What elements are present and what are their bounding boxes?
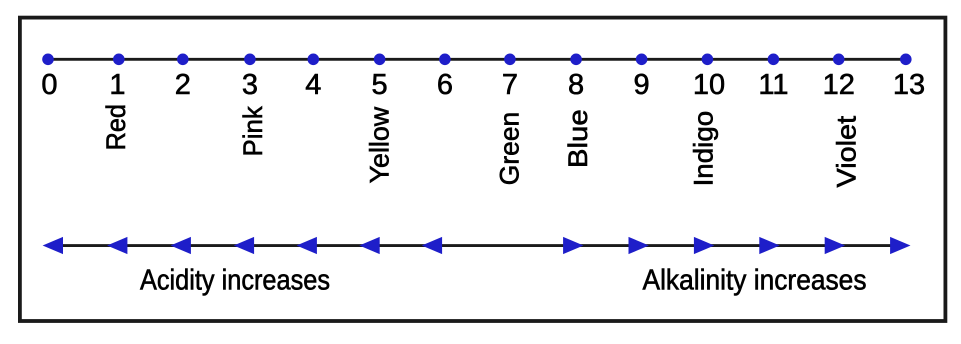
svg-text:2: 2 bbox=[175, 69, 191, 101]
left arrowhead 3 bbox=[171, 237, 191, 254]
right arrowhead 2 bbox=[629, 237, 649, 254]
right arrowhead 6 bbox=[890, 237, 910, 254]
dot pH 2 bbox=[177, 54, 189, 66]
pH number line bbox=[48, 58, 906, 61]
svg-text:0: 0 bbox=[41, 69, 57, 101]
right arrowhead 1 bbox=[563, 237, 583, 254]
left arrowhead 7 bbox=[422, 237, 442, 254]
svg-text:1: 1 bbox=[109, 69, 125, 101]
left arrowhead 1 bbox=[43, 237, 63, 254]
svg-text:7: 7 bbox=[502, 69, 518, 101]
svg-text:Indigo: Indigo bbox=[689, 111, 719, 187]
svg-text:Violet: Violet bbox=[831, 115, 861, 187]
dot pH 1 bbox=[113, 54, 125, 66]
svg-text:4: 4 bbox=[305, 69, 321, 101]
dot pH 3 bbox=[244, 54, 256, 66]
svg-text:Green: Green bbox=[494, 112, 524, 185]
svg-text:8: 8 bbox=[568, 69, 584, 101]
svg-text:Alkalinity increases: Alkalinity increases bbox=[643, 265, 867, 297]
dot pH 12 bbox=[833, 54, 845, 66]
dot pH 6 bbox=[439, 54, 451, 66]
right arrowhead 5 bbox=[825, 237, 845, 254]
right arrowhead 3 bbox=[694, 237, 714, 254]
svg-text:9: 9 bbox=[634, 69, 650, 101]
left arrowhead 5 bbox=[297, 237, 317, 254]
svg-text:13: 13 bbox=[893, 69, 925, 101]
arrow baseline bbox=[47, 244, 906, 247]
svg-text:11: 11 bbox=[758, 69, 788, 101]
svg-text:5: 5 bbox=[372, 69, 388, 101]
left arrowhead 6 bbox=[359, 237, 379, 254]
dot pH 11 bbox=[768, 54, 780, 66]
dot pH 9 bbox=[636, 54, 648, 66]
svg-text:Pink: Pink bbox=[238, 106, 268, 157]
svg-text:10: 10 bbox=[693, 69, 725, 101]
svg-text:12: 12 bbox=[823, 69, 855, 101]
svg-text:Acidity increases: Acidity increases bbox=[140, 265, 330, 297]
right arrowhead 4 bbox=[759, 237, 779, 254]
left arrowhead 4 bbox=[234, 237, 254, 254]
svg-text:Red: Red bbox=[101, 104, 131, 150]
svg-text:6: 6 bbox=[437, 69, 453, 101]
svg-text:Yellow: Yellow bbox=[365, 106, 395, 183]
left arrowhead 2 bbox=[107, 237, 127, 254]
dot pH 10 bbox=[702, 54, 714, 66]
svg-text:3: 3 bbox=[242, 69, 258, 101]
dot pH 7 bbox=[504, 54, 516, 66]
dot pH 0 bbox=[42, 54, 54, 66]
dot pH 5 bbox=[374, 54, 386, 66]
dot pH 4 bbox=[308, 54, 320, 66]
svg-text:Blue: Blue bbox=[563, 109, 593, 168]
dot pH 13 bbox=[900, 54, 912, 66]
dot pH 8 bbox=[570, 54, 582, 66]
